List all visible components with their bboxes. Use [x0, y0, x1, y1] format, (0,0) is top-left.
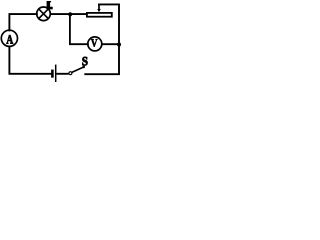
node: junction dot on right wire	[117, 42, 121, 46]
node: junction dot on top wire	[68, 12, 72, 16]
rheostat slider arm with down arrow	[97, 4, 101, 12]
lamp L (circle with X)	[37, 7, 51, 21]
label S	[82, 57, 87, 65]
wire: top-left corner (left vertical to ammeter + top horizontal to lamp)	[9, 14, 37, 30]
wire: slider top to right edge, down right side, and bottom right to switch	[85, 4, 119, 74]
wire: voltmeter to right side wire	[102, 43, 119, 45]
battery cell: short thick negative plate	[51, 70, 54, 78]
battery cell: long thin positive plate	[55, 65, 57, 82]
wire: battery to switch pivot	[57, 73, 69, 75]
wire: voltmeter branch from junction down and right	[70, 14, 88, 44]
voltmeter V	[88, 37, 102, 51]
switch S: lever with knob	[72, 66, 85, 73]
label L	[47, 1, 53, 9]
switch S: pivot circle	[69, 72, 72, 75]
rheostat R (slider resistor box)	[87, 13, 112, 17]
wire: left vertical below ammeter to bottom-left corner, then bottom toward battery	[9, 47, 51, 74]
wire: lamp to rheostat	[50, 13, 87, 15]
ammeter A	[1, 30, 17, 46]
